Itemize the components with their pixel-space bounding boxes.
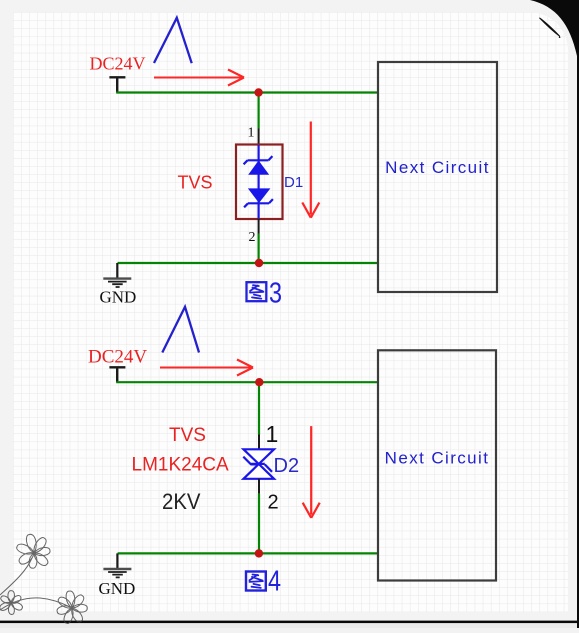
svg-text:1: 1 — [266, 421, 279, 447]
pin 2 lead wire (bottom) — [258, 479, 260, 494]
svg-text:Next Circuit: Next Circuit — [385, 448, 490, 467]
svg-text:D2: D2 — [274, 455, 300, 477]
block Next Circuit (bottom) — [378, 350, 496, 580]
junction top (bottom circuit) — [255, 378, 263, 386]
svg-text:2: 2 — [268, 492, 279, 514]
wire top horizontal (bottom circuit) — [116, 381, 378, 383]
surge pulse symbol (bottom) — [162, 307, 199, 353]
wire top horizontal — [116, 91, 378, 93]
junction bottom (bottom circuit) — [255, 549, 263, 557]
terminal DC24V (bottom) — [109, 367, 125, 382]
svg-text:GND: GND — [99, 579, 136, 598]
pin 2 lead wire — [258, 219, 260, 234]
terminal DC24V (top) — [109, 77, 125, 92]
pin 1 lead wire (bottom) — [258, 435, 260, 450]
wire vertical green to pin1 (bottom) — [258, 382, 260, 434]
ground symbol (bottom) — [103, 553, 131, 577]
svg-text:TVS: TVS — [169, 425, 206, 446]
svg-text:4: 4 — [268, 566, 281, 598]
page curl fold line — [539, 18, 559, 37]
wire vertical green to pin1 — [258, 93, 260, 129]
svg-text:D1: D1 — [284, 174, 303, 191]
surge current arrow (bottom) — [160, 360, 253, 376]
wire vertical green to bottom — [258, 234, 260, 264]
junction top-left — [254, 88, 262, 96]
svg-text:TVS: TVS — [178, 173, 213, 193]
current arrow down (top circuit) — [302, 122, 319, 218]
svg-text:2: 2 — [249, 230, 256, 245]
caption glyph 图 (figure 3) — [247, 282, 267, 301]
current arrow down (bottom circuit) — [303, 426, 320, 518]
TVS diode D2 bowtie — [243, 449, 274, 479]
svg-text:2KV: 2KV — [162, 489, 201, 514]
decorative flower doodle — [0, 533, 87, 624]
svg-text:1: 1 — [248, 126, 255, 141]
svg-text:DC24V: DC24V — [88, 347, 147, 368]
surge pulse symbol (top) — [154, 18, 192, 63]
caption glyph 图 (figure 4) — [246, 572, 266, 591]
surge current arrow (top) — [154, 70, 244, 86]
svg-text:LM1K24CA: LM1K24CA — [132, 455, 229, 476]
wire vertical green to bottom (bottom circuit) — [258, 494, 260, 554]
pin 1 lead wire — [258, 129, 260, 146]
svg-text:3: 3 — [269, 278, 282, 310]
TVS diode D1 — [236, 145, 283, 220]
wire bottom horizontal (top circuit) — [118, 262, 379, 264]
wire bottom horizontal (bottom circuit) — [118, 552, 378, 554]
junction bottom (top circuit) — [255, 259, 263, 267]
block Next Circuit (top) — [378, 62, 497, 292]
svg-text:Next Circuit: Next Circuit — [385, 158, 490, 177]
svg-text:GND: GND — [100, 287, 137, 306]
ground symbol (top) — [103, 263, 131, 287]
svg-text:DC24V: DC24V — [90, 54, 146, 74]
